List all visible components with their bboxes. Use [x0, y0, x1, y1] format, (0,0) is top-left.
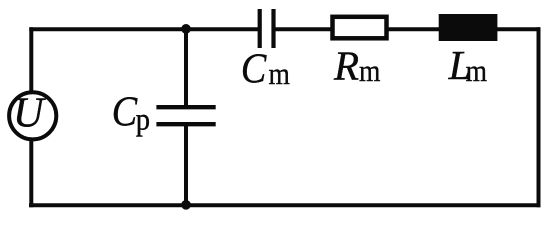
node junction top: [181, 24, 191, 34]
source U circle: [9, 92, 56, 139]
label Cm: [241, 46, 290, 93]
label Lm: [448, 42, 487, 88]
capacitor Cp plates: [156, 107, 215, 124]
wire right vertical: [537, 27, 541, 207]
wire Cp branch lower: [184, 126, 188, 205]
node junction bottom: [181, 200, 191, 210]
inductor Lm: [439, 14, 498, 41]
svg-text:C: C: [241, 46, 267, 93]
resistor Rm: [333, 17, 387, 39]
svg-text:m: m: [269, 56, 290, 91]
wire bottom horizontal: [29, 203, 541, 207]
wire Cp branch upper: [184, 29, 188, 105]
svg-text:p: p: [136, 101, 150, 137]
svg-text:C: C: [112, 88, 138, 135]
wire top-left horizontal: [29, 27, 258, 31]
capacitor Cm plates: [260, 9, 274, 48]
svg-text:m: m: [359, 53, 380, 88]
wire left vertical lower: [29, 140, 33, 207]
svg-text:R: R: [333, 42, 359, 88]
label Cp: [112, 88, 150, 136]
svg-text:U: U: [13, 90, 46, 137]
wire Rm to Lm: [387, 27, 440, 31]
label Rm: [333, 42, 380, 88]
wire Cm to Rm: [276, 27, 333, 31]
wire left vertical upper: [29, 27, 33, 92]
svg-text:m: m: [466, 53, 487, 88]
wire Lm to right corner: [496, 27, 541, 31]
